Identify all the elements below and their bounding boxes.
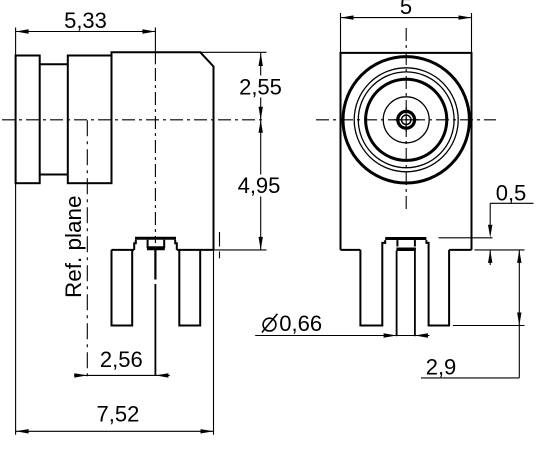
front view: center pin outer ring <box>398 111 415 128</box>
svg-text:5,33: 5,33 <box>64 8 107 33</box>
dim 0,66 right arrow (outside, pointing left) <box>415 333 428 337</box>
dim 0,66 dimension line <box>255 335 429 337</box>
dim 4,95 bottom extension line (seat) <box>214 249 267 251</box>
dim 2,55 dimension line lower segment <box>260 98 262 120</box>
dim 5,33 extension line right (pin axis, solid part) <box>154 28 156 65</box>
front view: horizontal center line <box>316 119 496 121</box>
svg-text:5: 5 <box>400 0 412 19</box>
dim 5 right arrow <box>459 15 472 19</box>
left view: left PCB leg <box>112 250 133 326</box>
dim 7,52 right arrow <box>201 429 214 433</box>
front view: thick inner shell circle <box>366 79 447 160</box>
front view: seating edge right segment <box>449 249 471 251</box>
dim 5 left arrow <box>341 15 354 19</box>
dim 5,33 dimension line <box>16 31 156 33</box>
dim 4,95 bottom arrow <box>259 237 263 250</box>
dim 2,56 right arrow (outside, pointing left) <box>155 373 168 377</box>
svg-text:0,66: 0,66 <box>279 311 322 336</box>
left view: body seating edge (right segment) <box>177 249 214 251</box>
front view: seating edge left segment <box>341 249 361 251</box>
dim 2,9 bottom arrow <box>517 313 521 326</box>
dim 4,95 dimension line upper segment <box>260 120 262 174</box>
dim 2,9 dimension line <box>518 250 520 378</box>
front view: second thin circle <box>358 72 454 168</box>
front view: vertical center line <box>405 28 407 210</box>
front view: contact shoulder <box>396 248 416 252</box>
svg-text:7,52: 7,52 <box>96 402 139 427</box>
front view: outer thin circle <box>354 68 458 172</box>
dim 2,55 top arrow <box>259 53 263 66</box>
front view: square body outline <box>341 53 472 250</box>
dim 2,9 leg-bottom extension line <box>453 325 525 327</box>
front view: insulator circle <box>383 97 429 143</box>
left view: center contact cup <box>147 240 165 249</box>
left view: second ring <box>68 56 112 184</box>
dim 2,55 dimension line upper segment <box>260 53 262 76</box>
dim 7,52 extension line left <box>15 183 17 435</box>
left view: front snap ring (outer flange) <box>16 56 40 184</box>
svg-text:Ref. plane: Ref. plane <box>61 195 86 298</box>
front view: right PCB leg <box>426 240 449 325</box>
front view: outer barrel circle <box>343 57 469 183</box>
front view: center pin inner circle <box>402 115 411 124</box>
dim 5 extension line left <box>340 13 342 53</box>
dim 0,5 seat extension line <box>475 249 525 251</box>
dim 7,52 left arrow <box>16 429 29 433</box>
dim 2,56 dimension line <box>74 374 170 376</box>
dim 5,33 right arrow <box>142 29 155 33</box>
dim 4,95 dimension line lower segment <box>260 197 262 250</box>
dim 2,55 bottom arrow <box>259 107 263 120</box>
svg-text:2,55: 2,55 <box>239 74 282 99</box>
dim 5,33 extension line left <box>15 28 17 56</box>
left view: body seating edge (left segment) <box>112 249 135 251</box>
dim 0,5 vertical line with down arrow <box>488 203 492 238</box>
dim 7,52 dimension line <box>16 430 214 432</box>
svg-text:4,95: 4,95 <box>238 173 281 198</box>
dim 2,56 left arrow (outside, pointing right) <box>74 373 87 377</box>
dim 0,5 bushing-top extension line <box>439 237 493 239</box>
left view: center pin tail <box>154 249 156 375</box>
svg-text:2,56: 2,56 <box>100 347 143 372</box>
dim 0,5 lower arrow pointing up <box>488 250 492 265</box>
svg-text:2,9: 2,9 <box>426 354 457 379</box>
left view: insulator bushing collar <box>134 238 177 250</box>
dim 5 extension line right <box>471 13 473 53</box>
left view: pin axis center line <box>154 68 156 243</box>
front view: center pin tail <box>397 251 415 337</box>
dim label 0,66 with diameter symbol <box>262 311 322 336</box>
dim 7,52 extension line right <box>213 250 215 435</box>
left view: right PCB leg <box>179 250 200 326</box>
left view: snap groove (reduced diameter) <box>40 64 68 174</box>
svg-text:0,5: 0,5 <box>496 180 527 205</box>
front view: left PCB leg <box>360 240 385 325</box>
dim 2,9 top arrow <box>517 250 521 263</box>
dim 0,66 left arrow (outside, pointing right) <box>384 333 397 337</box>
dim 4,95 top arrow <box>259 120 263 133</box>
front view: insulator bushing top <box>385 237 426 240</box>
dim 5,33 left arrow <box>16 29 29 33</box>
short dashed line right of body <box>219 232 221 258</box>
dim 2,55 top extension line <box>200 51 267 53</box>
left view: horizontal center line <box>2 119 263 121</box>
dim 5 dimension line <box>341 17 472 19</box>
left view: main body with top-right chamfer <box>112 52 214 250</box>
dim 0,5 leader line <box>490 202 533 204</box>
front view: contact cup walls <box>397 240 415 246</box>
ref plane dashed line <box>86 120 88 378</box>
dim 2,9 leader line <box>421 377 519 379</box>
